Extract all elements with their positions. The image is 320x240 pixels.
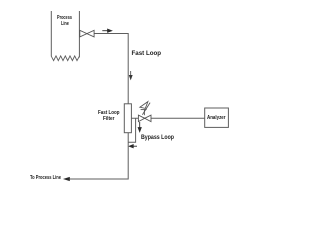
- wire fast loop horizontal top: [79, 34, 128, 104]
- process pipe right wall: [78, 11, 80, 58]
- terminal arrowhead to process line: [64, 177, 70, 180]
- flow arrow down on fast loop vertical: [129, 71, 132, 79]
- flow arrow left on bypass return: [129, 145, 137, 148]
- process pipe left wall: [50, 11, 52, 56]
- wire return to process line: [69, 133, 128, 179]
- fast loop filter vessel: [124, 104, 131, 133]
- analyzer box: [205, 108, 229, 127]
- wire analyzer feed line: [131, 117, 204, 119]
- label Fast Loop Filter line2: [103, 117, 115, 123]
- label To Process Line: [30, 176, 61, 182]
- process pipe break zigzag: [51, 56, 79, 61]
- flow arrow right on fast loop: [102, 29, 111, 32]
- label Fast Loop Filter line1: [98, 111, 119, 117]
- label Process Line line1: [57, 16, 72, 22]
- valve V2 regulating valve bowtie: [138, 115, 151, 122]
- label Bypass Loop: [141, 135, 174, 141]
- valve V1 tap valve bowtie: [80, 30, 94, 37]
- label Fast Loop: [132, 51, 162, 57]
- valve V2 regulator actuator flag: [140, 102, 150, 116]
- wire bypass drop line: [128, 118, 135, 142]
- flow arrow down on bypass: [138, 122, 141, 132]
- label Analyzer: [207, 116, 226, 122]
- label Process Line line2: [61, 22, 69, 28]
